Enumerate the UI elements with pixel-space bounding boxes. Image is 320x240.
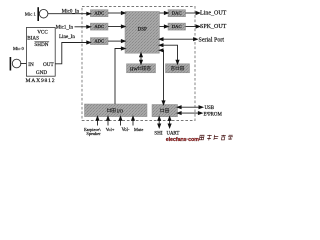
svg-text:I/O: I/O xyxy=(117,108,124,113)
svg-text:USB: USB xyxy=(205,106,215,111)
svg-text:GND: GND xyxy=(36,70,47,76)
svg-text:E²PROM: E²PROM xyxy=(204,111,223,117)
svg-text:OUT: OUT xyxy=(43,62,54,68)
svg-text:SHI: SHI xyxy=(154,130,163,136)
svg-text:DAC: DAC xyxy=(172,11,182,16)
svg-text:elecfans·com: elecfans·com xyxy=(166,137,199,143)
svg-text:SPK_OUT: SPK_OUT xyxy=(200,24,227,30)
svg-text:IN: IN xyxy=(28,62,34,68)
svg-text:Line_OUT: Line_OUT xyxy=(200,10,227,16)
svg-text:Vol-: Vol- xyxy=(122,128,130,133)
svg-text:ADC: ADC xyxy=(94,39,104,44)
svg-text:Mic 1: Mic 1 xyxy=(25,11,37,16)
svg-text:DSP: DSP xyxy=(138,28,147,33)
svg-text:MAX9812: MAX9812 xyxy=(26,78,56,84)
svg-text:UART: UART xyxy=(167,131,180,136)
svg-text:Serial Port: Serial Port xyxy=(199,37,225,43)
svg-text:ADC: ADC xyxy=(94,11,104,16)
svg-text:Mic 0: Mic 0 xyxy=(13,46,25,51)
svg-text:DAC: DAC xyxy=(172,24,182,29)
svg-text:Mic1_In: Mic1_In xyxy=(56,25,74,30)
svg-text:Speaker: Speaker xyxy=(86,131,101,136)
svg-text:SHDN: SHDN xyxy=(34,42,48,48)
svg-text:BIAS: BIAS xyxy=(27,36,39,42)
svg-text:HW: HW xyxy=(130,66,138,71)
svg-text:Line_In: Line_In xyxy=(59,35,75,40)
svg-text:ADC: ADC xyxy=(94,24,104,29)
svg-text:Mute: Mute xyxy=(134,127,143,132)
svg-text:Vol+: Vol+ xyxy=(106,127,115,132)
